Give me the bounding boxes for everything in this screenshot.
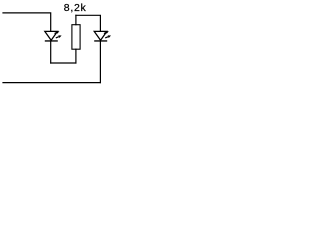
LED D-left emission arrows	[55, 31, 62, 38]
wire LED1 cathode to resistor bottom	[51, 62, 76, 64]
wire resistor top to LED2 anode	[76, 15, 101, 30]
wire LED2 cathode down	[99, 41, 101, 83]
resistor 8,2k	[72, 25, 80, 50]
wire LED1 cathode down	[50, 41, 52, 63]
wire resistor bottom lead	[75, 49, 77, 63]
wire resistor top lead	[75, 15, 77, 24]
wire bottom lead	[3, 82, 100, 84]
svg-text:8,2k: 8,2k	[64, 2, 87, 14]
LED D-left	[45, 31, 58, 41]
LED D-right	[94, 31, 107, 41]
wire top-left lead to LED1 anode	[3, 13, 51, 31]
LED D-right emission arrows	[104, 31, 111, 38]
